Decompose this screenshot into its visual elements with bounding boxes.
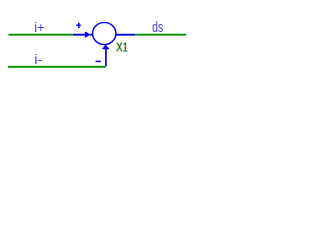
svg-text:X1: X1 bbox=[117, 40, 129, 55]
svg-text:i+: i+ bbox=[34, 19, 44, 35]
svg-text:ds: ds bbox=[152, 20, 163, 36]
svg-text:i-: i- bbox=[34, 51, 43, 67]
